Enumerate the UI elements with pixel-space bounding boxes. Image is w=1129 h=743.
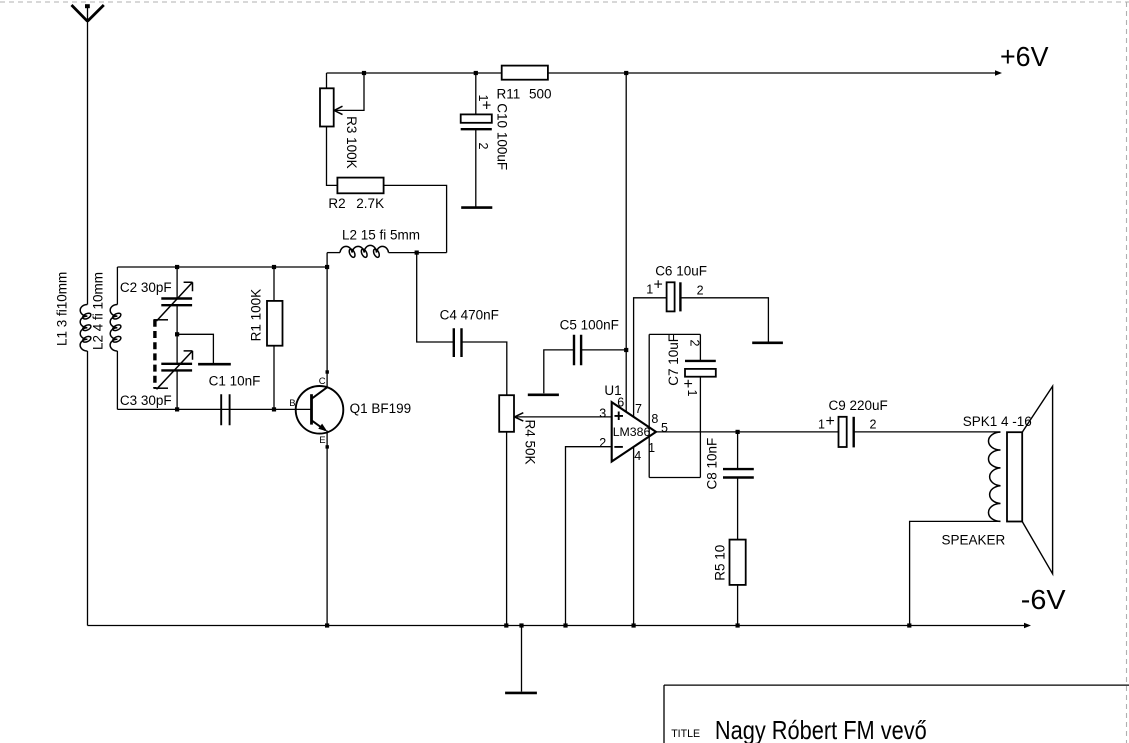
svg-text:R1 100K: R1 100K <box>249 289 264 342</box>
svg-text:2: 2 <box>697 284 704 298</box>
svg-text:SPK1 4 -16: SPK1 4 -16 <box>963 414 1032 429</box>
svg-text:SPEAKER: SPEAKER <box>942 533 1006 548</box>
svg-text:2: 2 <box>688 340 702 347</box>
svg-text:C5 100nF: C5 100nF <box>560 317 619 332</box>
svg-text:TITLE: TITLE <box>671 728 700 740</box>
svg-text:2: 2 <box>870 417 877 431</box>
svg-text:4: 4 <box>634 449 641 463</box>
svg-text:500: 500 <box>529 87 552 102</box>
svg-text:R3 100K: R3 100K <box>344 116 359 169</box>
svg-text:C: C <box>319 376 326 387</box>
svg-text:L2 15 fi 5mm: L2 15 fi 5mm <box>342 228 420 243</box>
svg-text:+6V: +6V <box>1000 41 1049 72</box>
svg-text:+: + <box>684 376 693 393</box>
svg-text:C1 10nF: C1 10nF <box>209 374 261 389</box>
svg-text:C10 100uF: C10 100uF <box>495 103 510 170</box>
svg-text:7: 7 <box>635 402 642 416</box>
svg-text:+: + <box>826 413 835 430</box>
svg-text:B: B <box>289 398 295 409</box>
svg-text:R4 50K: R4 50K <box>523 420 538 465</box>
svg-text:2: 2 <box>599 436 606 450</box>
svg-text:R11: R11 <box>497 87 521 102</box>
svg-text:Q1 BF199: Q1 BF199 <box>350 401 412 416</box>
svg-text:5: 5 <box>661 421 668 435</box>
svg-text:8: 8 <box>651 412 658 426</box>
svg-text:−: − <box>614 437 624 456</box>
svg-text:Nagy Róbert FM vevő: Nagy Róbert FM vevő <box>715 715 927 743</box>
svg-text:C7 10uF: C7 10uF <box>666 334 681 386</box>
svg-text:L1 3 fi10mm: L1 3 fi10mm <box>55 272 70 346</box>
svg-text:C6 10uF: C6 10uF <box>655 264 707 279</box>
svg-text:+: + <box>614 406 624 425</box>
svg-text:C9 220uF: C9 220uF <box>829 398 888 413</box>
svg-text:C2 30pF: C2 30pF <box>120 280 172 295</box>
svg-text:E: E <box>319 435 325 446</box>
svg-text:-6V: -6V <box>1021 584 1066 615</box>
svg-text:3: 3 <box>599 407 606 421</box>
svg-text:+: + <box>654 277 663 294</box>
svg-text:+: + <box>482 98 491 115</box>
svg-text:C4 470nF: C4 470nF <box>440 308 499 323</box>
svg-text:C8 10nF: C8 10nF <box>705 438 720 490</box>
svg-text:1: 1 <box>648 441 655 455</box>
svg-text:C3 30pF: C3 30pF <box>120 393 172 408</box>
svg-text:L2 4 fi 10mm: L2 4 fi 10mm <box>91 272 106 350</box>
svg-text:R5 10: R5 10 <box>713 545 728 581</box>
svg-text:R2: R2 <box>328 196 345 211</box>
svg-text:1: 1 <box>818 417 825 431</box>
svg-text:2.7K: 2.7K <box>356 196 384 211</box>
svg-text:2: 2 <box>476 143 490 150</box>
svg-text:1: 1 <box>646 283 653 297</box>
